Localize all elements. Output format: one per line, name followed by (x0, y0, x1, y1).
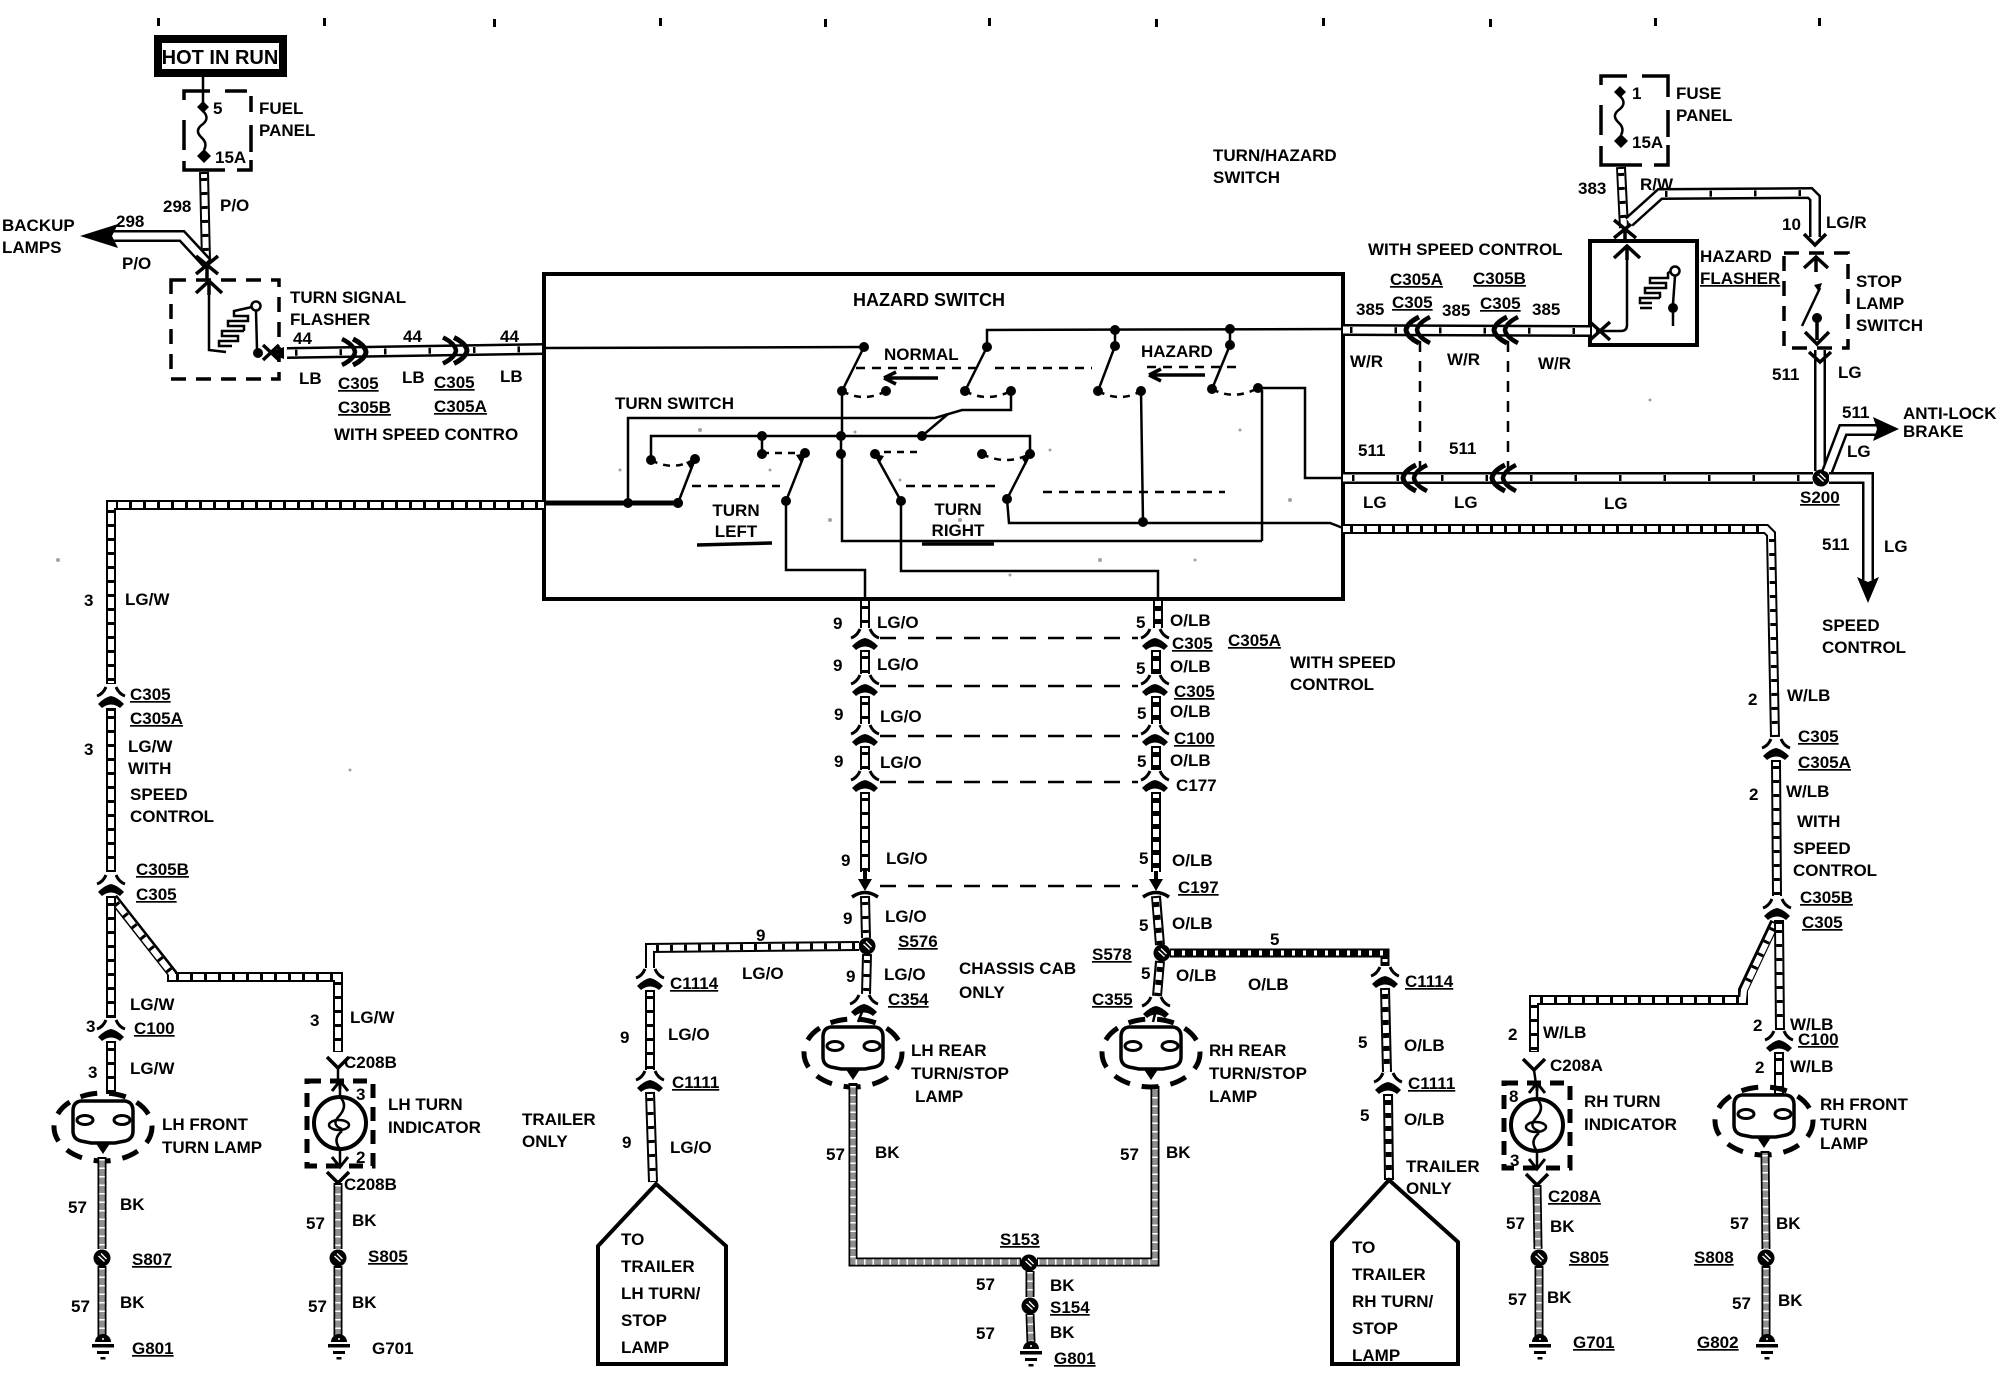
svg-text:S805: S805 (1569, 1248, 1609, 1267)
svg-text:HAZARD: HAZARD (1700, 247, 1772, 266)
svg-text:9: 9 (833, 656, 842, 675)
svg-text:383: 383 (1578, 179, 1606, 198)
svg-text:O/LB: O/LB (1176, 966, 1217, 985)
svg-text:3: 3 (86, 1017, 95, 1036)
flasher exit arrow left (1590, 322, 1610, 340)
splice S576 (859, 938, 876, 955)
svg-text:C1111: C1111 (1408, 1074, 1455, 1093)
svg-text:BK: BK (1776, 1214, 1801, 1233)
svg-text:LG/W: LG/W (128, 737, 173, 756)
splice S807 (94, 1250, 111, 1267)
svg-text:FUEL: FUEL (259, 99, 303, 118)
svg-text:C305: C305 (130, 685, 171, 704)
lamp RH FRONT TURN LAMP (1715, 1087, 1813, 1155)
svg-text:BRAKE: BRAKE (1903, 422, 1963, 441)
dashed line C305B drop (1507, 341, 1510, 469)
connector chain R1 (1141, 629, 1169, 650)
svg-text:10: 10 (1782, 215, 1801, 234)
svg-text:LG/O: LG/O (880, 753, 922, 772)
wire 383 R/W fuse to junction (1621, 167, 1624, 228)
wire 44 feed inside box (544, 347, 864, 348)
wire O/LB 3 (1151, 696, 1161, 724)
svg-text:W/LB: W/LB (1787, 686, 1830, 705)
arrow backup lamps (80, 224, 118, 248)
svg-text:LH FRONT: LH FRONT (162, 1115, 249, 1134)
wire into indicator (337, 1068, 340, 1083)
svg-text:9: 9 (834, 705, 843, 724)
ground G701 (328, 1334, 350, 1360)
wire T3 output to O/LB exit (901, 501, 1158, 599)
flasher internal arrow up (196, 281, 222, 295)
svg-text:9: 9 (833, 614, 842, 633)
svg-text:SWITCH: SWITCH (1213, 168, 1280, 187)
svg-text:LG/O: LG/O (886, 849, 928, 868)
switch contact N1 (837, 343, 891, 397)
svg-text:385: 385 (1532, 300, 1560, 319)
svg-text:BK: BK (1050, 1276, 1075, 1295)
svg-text:CHASSIS CAB: CHASSIS CAB (959, 959, 1076, 978)
svg-text:C100: C100 (1798, 1030, 1839, 1049)
svg-text:511: 511 (1842, 403, 1869, 422)
fuse element F1 15A (1614, 86, 1628, 148)
ground G801 middle (1020, 1341, 1042, 1367)
underline TURN LEFT (697, 543, 772, 545)
svg-text:C208A: C208A (1548, 1187, 1601, 1206)
svg-text:SPEED: SPEED (1793, 839, 1851, 858)
node bus dots (757, 431, 767, 441)
node dot on speed line (1138, 517, 1148, 527)
svg-text:WITH: WITH (1797, 812, 1840, 831)
svg-text:TURN SIGNAL: TURN SIGNAL (290, 288, 406, 307)
wire 10 LG/R junction to stop lamp switch (1629, 193, 1815, 237)
switch contact T2 (757, 436, 810, 506)
svg-text:PANEL: PANEL (259, 121, 315, 140)
wire T3 center drop to crossbar (842, 454, 1262, 541)
wire LG/O 4 (860, 746, 870, 770)
splice S153 (1021, 1255, 1038, 1272)
wire T4 output to speed control exit (1007, 499, 1343, 528)
svg-text:LG/O: LG/O (877, 613, 919, 632)
connector chain R4 (1141, 771, 1169, 792)
svg-text:15A: 15A (215, 148, 246, 167)
svg-text:LB: LB (500, 367, 523, 386)
svg-text:LG/O: LG/O (742, 964, 784, 983)
svg-text:TO: TO (621, 1230, 644, 1249)
svg-text:LG: LG (1838, 363, 1862, 382)
svg-text:C305: C305 (1172, 634, 1213, 653)
svg-text:BK: BK (1166, 1143, 1191, 1162)
svg-text:44: 44 (293, 329, 312, 348)
svg-text:1: 1 (1632, 84, 1641, 103)
wire O/LB 4 (1151, 746, 1161, 770)
flasher internal element (209, 295, 263, 358)
svg-text:C197: C197 (1178, 878, 1219, 897)
wire W/LB 2 (1776, 760, 1777, 896)
svg-text:LAMP: LAMP (621, 1338, 669, 1357)
wire 5 O/LB S578 to trailer branch (1170, 953, 1385, 966)
wire LG/W (3) main down (106, 896, 116, 1018)
wire LG/O chain segment 1 (860, 599, 870, 628)
svg-text:RH TURN: RH TURN (1584, 1092, 1661, 1111)
svg-text:CONTROL: CONTROL (1822, 638, 1906, 657)
turn signal flasher dashed box (171, 280, 279, 379)
junction X at hazard flasher top (1614, 220, 1636, 243)
svg-text:P/O: P/O (220, 196, 249, 215)
svg-text:S576: S576 (898, 932, 938, 951)
connector C305A/C305 on 385 wire (1406, 317, 1430, 343)
svg-text:ONLY: ONLY (1406, 1179, 1452, 1198)
svg-text:5: 5 (1270, 930, 1279, 949)
wire LG/W split diagonal to indicator branch (113, 898, 338, 1052)
svg-text:STOP: STOP (621, 1311, 667, 1330)
page scan tick artifacts top edge (157, 18, 1821, 27)
wire 57 BK S154 down (1030, 1314, 1031, 1342)
svg-text:RH REAR: RH REAR (1209, 1041, 1286, 1060)
connector on 511 wire (1) (1403, 465, 1427, 491)
underline TURN RIGHT (922, 542, 994, 546)
svg-text:O/LB: O/LB (1404, 1036, 1445, 1055)
connector chain R2 (1141, 675, 1169, 696)
arrow speed control (1857, 577, 1879, 603)
splice S805 right (1531, 1250, 1548, 1267)
svg-text:S153: S153 (1000, 1230, 1040, 1249)
svg-text:511: 511 (1449, 439, 1476, 458)
fuse panel FUSE PANEL dashed box (1601, 76, 1668, 165)
connector C208A lower (1526, 1174, 1548, 1185)
dashed link 3 (880, 735, 1138, 738)
wire into LH rear lamp (858, 1012, 862, 1022)
switch contact T4 (977, 449, 1035, 504)
svg-text:LG/O: LG/O (884, 965, 926, 984)
svg-text:2: 2 (1748, 690, 1757, 709)
connector C305/C305B on 44 wire (342, 339, 366, 365)
svg-text:57: 57 (976, 1275, 995, 1294)
connector chain L1 (851, 629, 879, 650)
svg-text:9: 9 (846, 967, 855, 986)
svg-text:C305: C305 (1174, 682, 1215, 701)
wire H2 output to 511 stub (1258, 388, 1343, 478)
splice S200 (1813, 470, 1830, 487)
wire LG/W (2) (106, 708, 116, 872)
svg-text:LG: LG (1604, 494, 1628, 513)
svg-text:511: 511 (1358, 441, 1385, 460)
svg-text:ONLY: ONLY (959, 983, 1005, 1002)
wire LG/W (4) to front lamp (106, 1041, 116, 1094)
stop switch blade (1802, 283, 1822, 326)
svg-text:S807: S807 (132, 1250, 172, 1269)
switch contact T3 (836, 436, 920, 506)
connector chain R5 arrow (1143, 871, 1169, 897)
svg-text:S578: S578 (1092, 945, 1132, 964)
hazard switch top bus (987, 329, 1343, 347)
wire 57 BK S153 to RH rear lamp (1037, 1086, 1155, 1262)
arrow under NORMAL (884, 372, 938, 384)
svg-text:LEFT: LEFT (715, 522, 758, 541)
svg-text:W/LB: W/LB (1790, 1057, 1833, 1076)
svg-text:LG/R: LG/R (1826, 213, 1867, 232)
svg-text:C305B: C305B (136, 860, 189, 879)
arrow under HAZARD (1149, 369, 1205, 381)
svg-text:5: 5 (1137, 704, 1146, 723)
svg-text:C208A: C208A (1550, 1056, 1603, 1075)
connector C208B lower (327, 1172, 349, 1183)
svg-text:C305A: C305A (1390, 270, 1443, 289)
splice S154 (1022, 1298, 1039, 1315)
connector C100 right (1765, 1031, 1793, 1052)
wire into RH indicator (1534, 1070, 1536, 1084)
svg-text:RH FRONT: RH FRONT (1820, 1095, 1908, 1114)
svg-text:S805: S805 (368, 1247, 408, 1266)
stop switch arrow up (1804, 257, 1828, 272)
svg-text:LG/W: LG/W (125, 590, 170, 609)
hazard flasher box (1590, 241, 1697, 345)
wire W/LB split to RH indicator (1534, 922, 1775, 1052)
wire LG/O trailer 2 (645, 990, 655, 1070)
svg-text:WITH SPEED CONTROL: WITH SPEED CONTROL (1368, 240, 1563, 259)
svg-text:S200: S200 (1800, 488, 1840, 507)
scan smudge artifacts (56, 399, 1652, 772)
stop lamp switch dashed box (1784, 253, 1848, 348)
svg-text:BK: BK (352, 1293, 377, 1312)
svg-text:298: 298 (116, 212, 144, 231)
svg-text:C355: C355 (1092, 990, 1133, 1009)
switch contact N2 (960, 342, 1016, 397)
svg-text:5: 5 (1136, 613, 1145, 632)
svg-text:C305: C305 (1392, 293, 1433, 312)
ground G701 right (1529, 1334, 1551, 1360)
stop switch arrow down (1805, 322, 1829, 344)
svg-text:511: 511 (1822, 535, 1849, 554)
svg-text:CONTROL: CONTROL (1290, 675, 1374, 694)
svg-text:BACKUP: BACKUP (2, 216, 75, 235)
svg-text:C305B: C305B (1800, 888, 1853, 907)
svg-text:W/R: W/R (1447, 350, 1480, 369)
svg-text:9: 9 (620, 1028, 629, 1047)
svg-text:O/LB: O/LB (1170, 657, 1211, 676)
HOT IN RUN box (158, 39, 283, 73)
node bus dots (1110, 325, 1120, 335)
svg-text:5: 5 (1358, 1033, 1367, 1052)
svg-text:3: 3 (1510, 1151, 1519, 1170)
box TO TRAILER RH TURN/STOP LAMP (1332, 1180, 1458, 1364)
svg-text:BK: BK (875, 1143, 900, 1162)
wire O/LB below S578 (1157, 961, 1160, 996)
svg-text:LH REAR: LH REAR (911, 1041, 987, 1060)
svg-text:511: 511 (1772, 365, 1799, 384)
svg-text:TRAILER: TRAILER (522, 1110, 596, 1129)
svg-text:TURN/STOP: TURN/STOP (1209, 1064, 1307, 1083)
svg-text:385: 385 (1356, 300, 1384, 319)
svg-text:9: 9 (841, 851, 850, 870)
wire LG/W box to left column (111, 505, 544, 684)
lamp LH FRONT TURN LAMP (54, 1093, 152, 1161)
node feed dots (623, 498, 633, 508)
svg-text:ANTI-LOCK: ANTI-LOCK (1903, 404, 1997, 423)
svg-text:C305: C305 (1480, 294, 1521, 313)
svg-text:15A: 15A (1632, 133, 1663, 152)
svg-text:5: 5 (1136, 659, 1145, 678)
svg-text:TURN SWITCH: TURN SWITCH (615, 394, 734, 413)
connector C100 left (97, 1020, 125, 1041)
svg-text:9: 9 (834, 752, 843, 771)
lamp RH REAR TURN/STOP LAMP (1102, 1019, 1200, 1087)
wire O/LB trailer 3 (1388, 1094, 1389, 1180)
svg-text:WITH SPEED CONTRO: WITH SPEED CONTRO (334, 425, 518, 444)
wire left feed riser to N2 contact (628, 391, 1011, 503)
splice S808 (1758, 1250, 1775, 1267)
wire O/LB 5 long (1151, 792, 1161, 872)
LH turn indicator bulb (307, 1081, 373, 1167)
dashed linkage turn row (692, 486, 1225, 492)
svg-text:C208B: C208B (344, 1053, 397, 1072)
svg-text:LG/W: LG/W (350, 1008, 395, 1027)
switch contact H1 (1093, 330, 1146, 397)
wire 44 LB flasher to hazard switch box (287, 349, 544, 353)
wire 57 BK to ground (334, 1266, 343, 1336)
svg-text:W/R: W/R (1538, 354, 1571, 373)
svg-text:O/LB: O/LB (1170, 611, 1211, 630)
svg-text:SPEED: SPEED (130, 785, 188, 804)
svg-text:LG/O: LG/O (880, 707, 922, 726)
svg-text:BK: BK (120, 1195, 145, 1214)
node feed dot (859, 342, 869, 352)
svg-text:LG/O: LG/O (668, 1025, 710, 1044)
svg-text:LG/W: LG/W (130, 1059, 175, 1078)
wire 57 BK S153 down (1026, 1271, 1035, 1297)
connector V into stop lamp switch (1804, 234, 1826, 245)
svg-text:2: 2 (1753, 1016, 1762, 1035)
svg-text:TURN: TURN (712, 501, 759, 520)
svg-text:57: 57 (1506, 1214, 1525, 1233)
svg-text:TURN/STOP: TURN/STOP (911, 1064, 1009, 1083)
connector C354 (850, 995, 878, 1016)
svg-text:3: 3 (356, 1085, 365, 1104)
svg-text:57: 57 (1120, 1145, 1139, 1164)
svg-text:57: 57 (68, 1198, 87, 1217)
wire 511 LG to anti-lock brake (1827, 430, 1876, 472)
svg-text:S154: S154 (1050, 1298, 1090, 1317)
svg-text:C305B: C305B (1473, 269, 1526, 288)
svg-text:5: 5 (1137, 752, 1146, 771)
svg-text:5: 5 (1141, 964, 1150, 983)
svg-text:BK: BK (1550, 1217, 1575, 1236)
svg-text:LAMPS: LAMPS (2, 238, 62, 257)
svg-text:FUSE: FUSE (1676, 84, 1721, 103)
svg-text:G701: G701 (372, 1339, 414, 1358)
svg-text:FLASHER: FLASHER (290, 310, 370, 329)
connector C355 (1142, 997, 1170, 1018)
wire 385 W/R hazard switch to flasher (1343, 330, 1590, 331)
connector on 511 wire (2) (1492, 465, 1516, 491)
wire 57 BK front lamp down (98, 1157, 107, 1249)
svg-text:8: 8 (1509, 1087, 1518, 1106)
svg-text:BK: BK (1778, 1291, 1803, 1310)
junction X at flasher top (196, 256, 218, 280)
turn switch bus (651, 436, 1030, 460)
svg-text:STOP: STOP (1856, 272, 1902, 291)
svg-text:LB: LB (402, 368, 425, 387)
svg-text:LG: LG (1884, 537, 1908, 556)
svg-text:O/LB: O/LB (1404, 1110, 1445, 1129)
svg-text:C1114: C1114 (670, 974, 719, 993)
svg-text:BK: BK (120, 1293, 145, 1312)
svg-text:9: 9 (756, 926, 765, 945)
wire 57 BK RH front lamp down (1765, 1151, 1766, 1249)
wire N1 output to bus (841, 391, 844, 436)
svg-text:LG/W: LG/W (130, 995, 175, 1014)
svg-text:TURN LAMP: TURN LAMP (162, 1138, 262, 1157)
svg-text:TRAILER: TRAILER (621, 1257, 695, 1276)
wire stub HOT IN RUN to fuse (202, 75, 205, 103)
wire 511 LG to speed control (1829, 478, 1868, 580)
svg-text:2: 2 (1755, 1058, 1764, 1077)
splice S805 (330, 1250, 347, 1267)
connector C1114 right (1371, 967, 1399, 988)
svg-text:INDICATOR: INDICATOR (1584, 1115, 1677, 1134)
svg-text:STOP: STOP (1352, 1319, 1398, 1338)
wire left feed heavy (544, 501, 680, 506)
ground G801 (92, 1334, 114, 1360)
splice S578 (1154, 945, 1171, 962)
svg-text:2: 2 (356, 1148, 365, 1167)
svg-text:LG: LG (1363, 493, 1387, 512)
wire 57 BK indicator down (334, 1183, 343, 1249)
wire 9 LG/O S576 to trailer branch (650, 946, 859, 968)
svg-text:ONLY: ONLY (522, 1132, 568, 1151)
svg-text:LG: LG (1847, 442, 1871, 461)
connector C1114 left (636, 969, 664, 990)
svg-text:57: 57 (308, 1297, 327, 1316)
svg-text:INDICATOR: INDICATOR (388, 1118, 481, 1137)
connector C208B upper (327, 1057, 349, 1068)
svg-text:HOT IN RUN: HOT IN RUN (162, 47, 279, 69)
wire O/LB 6 (1156, 896, 1160, 945)
connector C208A upper (1523, 1059, 1545, 1070)
svg-text:LH TURN/: LH TURN/ (621, 1284, 701, 1303)
svg-text:C1111: C1111 (672, 1073, 719, 1092)
svg-text:S808: S808 (1694, 1248, 1734, 1267)
svg-text:W/LB: W/LB (1543, 1023, 1586, 1042)
svg-text:WITH: WITH (128, 759, 171, 778)
dashed line C305A drop (1419, 341, 1422, 469)
svg-text:2: 2 (1749, 785, 1758, 804)
svg-text:C100: C100 (134, 1019, 175, 1038)
svg-text:O/LB: O/LB (1172, 914, 1213, 933)
wire O/LB 2 (1151, 650, 1161, 674)
wire 57 BK to ground (1762, 1266, 1771, 1336)
wire W/LB to RH front lamp (1774, 1052, 1784, 1094)
svg-text:3: 3 (88, 1063, 97, 1082)
flasher internal element (1596, 260, 1680, 331)
wire O/LB trailer 2 (1385, 988, 1387, 1072)
svg-text:9: 9 (843, 909, 852, 928)
svg-text:57: 57 (976, 1324, 995, 1343)
svg-text:57: 57 (1732, 1294, 1751, 1313)
svg-text:O/LB: O/LB (1172, 851, 1213, 870)
svg-text:LH TURN: LH TURN (388, 1095, 463, 1114)
dashed link 1 (880, 637, 1138, 640)
svg-text:2: 2 (1508, 1025, 1517, 1044)
wire LG/O 2 (860, 650, 870, 674)
svg-text:LAMP: LAMP (1209, 1087, 1257, 1106)
svg-text:5: 5 (1139, 849, 1148, 868)
svg-text:TRAILER: TRAILER (1352, 1265, 1426, 1284)
svg-text:C305A: C305A (434, 397, 487, 416)
svg-text:C177: C177 (1176, 776, 1217, 795)
connector chain L3 (851, 725, 879, 746)
connector chain L2 (851, 675, 879, 696)
wire 298 P/O fuse to junction (204, 172, 206, 262)
